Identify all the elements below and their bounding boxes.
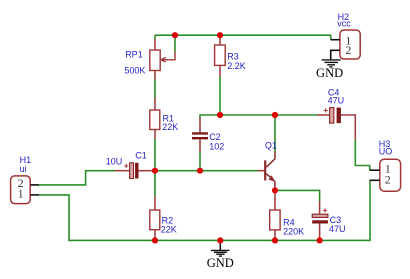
resistor R3 [215,45,246,71]
wire top rail vcc [155,35,331,40]
svg-text:1: 1 [18,186,24,200]
Q1 emitter [266,174,274,181]
wire H1 pin2 to C1 [39,171,116,185]
wire node to R2 [154,171,156,197]
wire base node to Q1 [155,170,258,172]
wire R2 to ground rail [154,229,156,240]
svg-text:+: + [323,205,328,215]
svg-text:+: + [323,105,328,115]
svg-text:C2: C2 [209,132,221,142]
wire C1 left lead [115,170,130,172]
svg-text:2: 2 [345,43,351,57]
wire C1 right lead [138,170,155,172]
capacitor C4 polarized [323,88,344,124]
junction ground rail at R4 [272,237,278,243]
junction emitter node [272,187,278,193]
H1 pin 2 stub [30,184,39,186]
ground symbol bottom [207,240,234,269]
svg-text:RP1: RP1 [125,50,143,60]
svg-text:GND: GND [207,256,234,270]
wire C4 left lead [318,114,331,116]
wire RP1 top lead [154,35,156,40]
wire R1 to node [154,129,156,139]
H1 pin 1 stub [30,194,39,196]
wire C4 right lead [340,115,355,140]
svg-text:C1: C1 [135,150,147,160]
wire emitter node to C3 [275,190,320,201]
RP1 wiper [162,52,175,60]
Q1 collector [266,151,275,167]
junction mid rail at collector [272,112,278,118]
capacitor C3 polarized [312,205,345,234]
connector H3 [370,139,401,191]
wire R4 bottom lead [274,230,276,241]
svg-text:Q1: Q1 [265,140,277,150]
wire R3 bottom lead [219,65,221,77]
wire C3 bottom lead [319,223,321,240]
H3 pin 2 stub [370,179,380,181]
wire C2 top lead [199,118,201,133]
transistor Q1 [265,140,277,190]
connector H2 [331,12,360,60]
wire mid rail y115 [200,115,318,118]
wire C3 top lead [319,201,321,214]
wire RP1 wiper drop [174,35,176,52]
H3 pin 1 stub [370,169,380,171]
svg-text:102: 102 [209,142,224,152]
svg-text:47U: 47U [328,96,345,106]
junction mid rail at R3 bottom [217,112,223,118]
svg-text:22K: 22K [162,122,178,132]
svg-text:2: 2 [385,173,391,187]
junction top rail at RP1 wiper [172,32,178,38]
svg-text:500K: 500K [124,66,145,76]
svg-text:22K: 22K [161,224,177,234]
junction ground rail at C3 [317,237,323,243]
svg-text:220K: 220K [283,226,304,236]
capacitor C1 polarized [106,150,147,178]
wire RP1 to R1 [154,70,156,80]
wire C4 to H3 pin1 [355,140,369,171]
potentiometer RP1 [124,50,175,76]
wire R4 top lead [274,190,276,210]
H2 pin 2 stub [331,50,340,59]
svg-text:ui: ui [20,164,27,174]
svg-text:+: + [124,161,129,171]
wire ground rail from H1 pin1 [39,180,371,240]
junction ground rail at GND [217,237,223,243]
svg-text:10U: 10U [106,156,123,166]
wire collector drop [274,115,276,152]
resistor R4 [270,210,304,236]
wire C2 bottom lead [199,139,201,152]
junction base node at C2 [197,168,203,174]
connector H1 [11,155,39,204]
junction ground rail at R2 [152,237,158,243]
resistor R2 [150,210,177,234]
ground symbol under H2 [316,60,343,80]
svg-text:47U: 47U [329,224,346,234]
H2 pin 1 stub [331,39,340,41]
svg-text:vcc: vcc [337,19,351,29]
resistor R1 [150,110,178,132]
svg-text:GND: GND [316,66,343,80]
junction base node at C1 [152,168,158,174]
svg-text:UO: UO [379,147,393,157]
junction top rail at R3 [217,32,223,38]
wire R3 top lead [219,35,221,45]
capacitor C2 [192,132,224,152]
svg-text:2.2K: 2.2K [227,61,246,71]
